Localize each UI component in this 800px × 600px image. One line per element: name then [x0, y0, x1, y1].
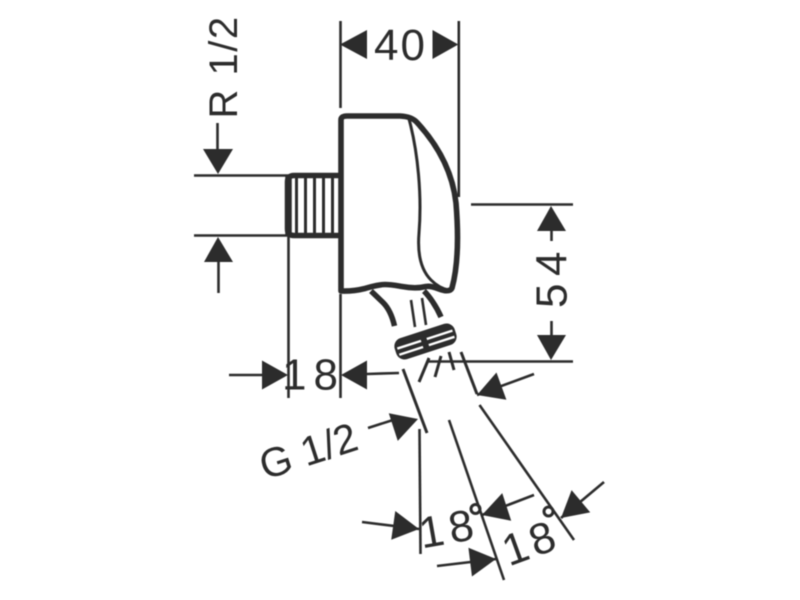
hose line 2: [419, 358, 429, 382]
nipple thread 5: [331, 178, 334, 233]
G 1/2 leader line: [368, 420, 393, 428]
hose line 3: [435, 356, 441, 377]
hose edge right: [461, 352, 477, 394]
dim 40 left extension line: [339, 21, 342, 108]
nipple thread 3: [313, 178, 316, 233]
svg-text:G 1/2: G 1/2: [254, 414, 364, 489]
dim 18 right extension line: [339, 294, 342, 398]
outlet neck behind body: [371, 291, 395, 326]
hose line 4: [449, 352, 454, 370]
svg-text:18: 18: [496, 510, 566, 576]
dim R1/2 upper arrow: [203, 149, 233, 174]
dim 54 bottom extension line: [427, 360, 573, 363]
neck inner line 1: [411, 300, 415, 327]
degree circle second: [544, 507, 553, 516]
nipple thread 1: [295, 178, 298, 233]
G 1/2 arrow: [389, 405, 423, 441]
dim 54 upper tick: [550, 231, 553, 241]
dim 54 lower arrow: [537, 335, 566, 360]
wall outlet body: [341, 116, 458, 291]
svg-text:18: 18: [282, 351, 345, 400]
dim 18 right tail: [367, 373, 399, 374]
dim 40 right extension line: [457, 21, 460, 197]
hose collar nut: [392, 321, 459, 361]
neck inner line 2: [422, 298, 426, 325]
dim 18 right arrow: [341, 361, 367, 390]
body front face inner edge: [409, 119, 449, 290]
hose leader arrow: [472, 372, 506, 408]
hose edge left: [403, 369, 427, 433]
svg-text:R 1/2: R 1/2: [202, 15, 246, 118]
angle dim 2 right tail: [561, 482, 604, 518]
angle dim 1 right tail: [482, 495, 534, 515]
dim R1/2 lower arrow tail: [217, 262, 220, 293]
angle dim 1 left arrow: [391, 511, 421, 543]
hose leader tail: [477, 374, 534, 395]
nipple left cap: [285, 176, 292, 235]
angle dim 1 right arrow: [478, 493, 512, 529]
dim 54 top extension line: [471, 203, 573, 206]
vertical reference ray: [420, 429, 421, 554]
svg-text:54: 54: [528, 244, 577, 308]
nipple thread 2: [304, 178, 307, 233]
nipple thread 4: [322, 178, 325, 233]
dim 18 left tail: [229, 374, 266, 377]
dim R1/2 lower arrow: [204, 237, 233, 262]
angle dim 1 left tail: [362, 522, 419, 529]
angle dim 2 left arrow: [468, 545, 497, 577]
outlet axis ray 18deg: [449, 420, 504, 580]
angle dim 2 right arrow: [552, 490, 591, 529]
nipple top extension line: [194, 174, 289, 177]
dim 18 left arrow: [262, 361, 288, 390]
threaded nipple outline: [288, 176, 342, 236]
hose axis ray 36deg: [480, 405, 575, 540]
dim 18 left extension line: [287, 236, 290, 398]
dim 40 left arrow: [340, 30, 367, 59]
dim R1/2 upper arrow tail: [216, 123, 219, 150]
dim 54 upper arrow: [537, 206, 566, 231]
dim 40 right arrow: [433, 30, 459, 59]
degree circle first: [471, 505, 480, 514]
angle dim 2 left tail: [437, 559, 496, 566]
svg-text:40: 40: [374, 21, 427, 70]
nipple bottom extension line: [194, 234, 289, 237]
dim 54 lower tick: [550, 321, 553, 335]
